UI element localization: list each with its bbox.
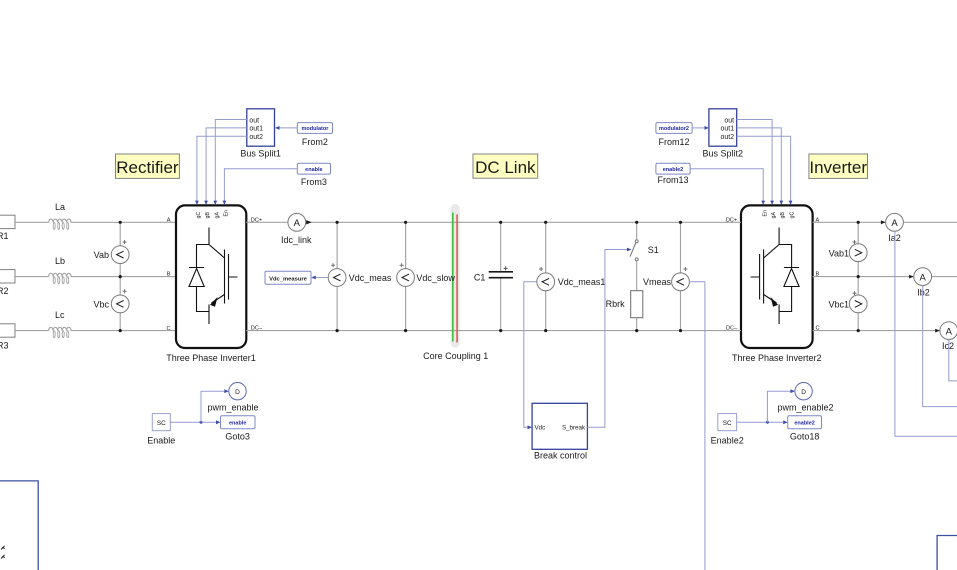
goto-from From2 modulator: [297, 123, 332, 147]
svg-text:enable2: enable2: [663, 167, 683, 173]
node A right: [857, 221, 860, 224]
svg-text:A: A: [891, 218, 898, 229]
capacitor C1 branch: [474, 222, 513, 330]
svg-text:gB: gB: [780, 212, 786, 219]
svg-text:Ib2: Ib2: [917, 287, 930, 297]
wire right measurement branch: [857, 222, 859, 330]
voltage measurement Vbc1: [828, 291, 867, 313]
subsystem block Three Phase Inverter1: [166, 205, 256, 363]
node DC+ x636: [635, 221, 638, 224]
svg-text:Lb: Lb: [55, 256, 65, 266]
svg-text:A: A: [167, 217, 171, 223]
node DC- x337: [336, 329, 339, 332]
voltage source Vbc: [93, 289, 129, 313]
node DC- x680: [679, 329, 682, 332]
svg-text:pwm_enable: pwm_enable: [207, 403, 258, 413]
node DC- x405: [404, 329, 407, 332]
source block Enable2 SC: [711, 414, 744, 446]
wire From3 to pin En: [224, 169, 297, 201]
svg-text:Inverter: Inverter: [809, 158, 867, 177]
svg-text:From13: From13: [657, 175, 688, 185]
wire La to node A: [74, 221, 176, 223]
wire Vmeas output down: [689, 282, 705, 570]
wire Bus Split2 out to pin gA2: [737, 120, 772, 202]
ammeter Ia2: [886, 213, 904, 242]
svg-text:Lc: Lc: [55, 310, 65, 320]
scope box bottom-left: [0, 481, 38, 570]
svg-text:Enable2: Enable2: [711, 436, 744, 446]
svg-text:From12: From12: [658, 137, 689, 147]
wire From13 to pin En2: [690, 169, 763, 201]
svg-text:Three Phase Inverter2: Three Phase Inverter2: [732, 353, 822, 363]
voltage measurement Vdc_meas1: [537, 267, 606, 291]
wire Enable2 to Goto18: [737, 421, 784, 423]
IGBT diode symbol inside block2: [751, 228, 800, 325]
wire Enable to Goto3: [170, 421, 216, 423]
goto-from From12 modulator2: [656, 123, 692, 147]
svg-text:Rectifier: Rectifier: [116, 158, 179, 177]
wire DC- rail: [246, 330, 741, 332]
inductor Lc: [49, 310, 74, 338]
goto Goto18 enable2: [788, 416, 822, 442]
wire Vmeas branch: [680, 222, 682, 330]
goto-from From13 enable2: [656, 163, 690, 185]
svg-text:gA: gA: [214, 212, 220, 219]
svg-text:Vdc: Vdc: [535, 425, 546, 432]
svg-text:DC–: DC–: [726, 326, 738, 332]
svg-text:modulator: modulator: [301, 126, 329, 132]
svg-text:gB: gB: [205, 212, 211, 219]
svg-text:C: C: [166, 326, 170, 332]
wire R1 to La: [15, 221, 49, 223]
goto Goto3 enable: [221, 416, 256, 442]
node DC+ x545: [544, 221, 547, 224]
wire A rail right: [813, 221, 886, 223]
wire From12 to Bus Split2: [692, 127, 704, 129]
svg-text:out1: out1: [249, 126, 263, 133]
IGBT diode symbol inside block1: [189, 228, 238, 325]
core coupling red line: [456, 215, 458, 343]
svg-text:R3: R3: [0, 340, 9, 350]
wire Ic2 output down right: [949, 340, 957, 381]
svg-text:gC: gC: [790, 212, 796, 219]
core coupling highlight halo: [451, 204, 460, 348]
svg-text:Bus Split2: Bus Split2: [703, 148, 744, 158]
area label DC Link: [473, 154, 538, 178]
svg-text:B: B: [167, 272, 171, 278]
svg-text:Vbc: Vbc: [93, 300, 109, 310]
svg-text:S1: S1: [648, 245, 659, 255]
area label Rectifier: [116, 154, 180, 178]
node C right: [857, 329, 860, 332]
voltage measurement Vab1: [829, 240, 867, 262]
svg-text:From3: From3: [301, 177, 327, 187]
wire DC+ rail left: [246, 221, 288, 223]
block Bus Split2: [703, 109, 744, 159]
wire Ia2 output down right: [895, 231, 957, 436]
svg-text:DC Link: DC Link: [475, 158, 536, 177]
goto Vdc_measure: [265, 271, 311, 284]
switch S1: [630, 222, 659, 290]
node A junction: [119, 221, 122, 224]
scope box italic text fragment 2: [1, 555, 5, 559]
svg-text:out2: out2: [720, 134, 734, 141]
node enable2 junction: [766, 421, 769, 424]
goto pwm_enable2 D: [777, 383, 833, 413]
source block Enable SC: [147, 414, 175, 446]
svg-text:SC: SC: [157, 420, 166, 427]
wire Ib2 output down right: [923, 286, 957, 407]
wire From2 to Bus Split1: [280, 127, 298, 129]
svg-text:S_break: S_break: [562, 425, 586, 432]
inductor La: [49, 202, 74, 230]
resistor Rbrk: [606, 291, 643, 331]
node DC- x636: [635, 329, 638, 332]
node DC+ x405: [404, 221, 407, 224]
node C junction: [119, 329, 122, 332]
voltage measurement Vdc_slow: [397, 263, 456, 286]
svg-text:La: La: [55, 202, 65, 212]
svg-text:A: A: [920, 272, 927, 283]
svg-text:Break control: Break control: [534, 451, 587, 461]
resistor R2: [0, 270, 15, 296]
node B junction: [119, 275, 122, 278]
svg-text:Goto3: Goto3: [225, 432, 250, 442]
svg-text:pwm_enable2: pwm_enable2: [777, 403, 833, 413]
svg-text:enable: enable: [229, 421, 246, 427]
svg-text:Idc_link: Idc_link: [281, 235, 312, 245]
subsystem block Three Phase Inverter2: [732, 205, 822, 363]
svg-text:Vdc_slow: Vdc_slow: [416, 273, 455, 283]
resistor R3: [0, 324, 15, 351]
wire Bus Split1 out to pin gA: [215, 120, 247, 202]
arrow into Ic2: [935, 329, 940, 333]
wire Vdc_meas to Vdc_measure: [316, 277, 328, 279]
arrow into Ia2: [881, 220, 886, 224]
goto-from From3 enable: [297, 163, 330, 187]
svg-text:gA: gA: [771, 212, 777, 219]
svg-text:Vdc_measure: Vdc_measure: [269, 276, 307, 282]
svg-text:out: out: [724, 117, 734, 124]
resistor R1: [0, 215, 15, 241]
core coupling green line: [452, 213, 454, 342]
svg-text:gC: gC: [196, 212, 202, 219]
node DC- x500: [499, 329, 502, 332]
svg-text:Goto18: Goto18: [790, 432, 820, 442]
inductor Lb: [49, 256, 74, 284]
node DC+ x500: [499, 221, 502, 224]
svg-text:Vdc_meas1: Vdc_meas1: [558, 277, 606, 287]
node DC- x545: [544, 329, 547, 332]
svg-text:C1: C1: [474, 272, 486, 282]
svg-text:A: A: [946, 326, 953, 337]
node DC+ x337: [336, 221, 339, 224]
svg-text:R1: R1: [0, 231, 9, 241]
wire R3 to Lc: [15, 330, 49, 332]
block Bus Split1: [240, 109, 281, 159]
svg-text:modulator2: modulator2: [659, 126, 689, 132]
node B right: [857, 275, 860, 278]
block Break control: [532, 403, 587, 460]
wire Vdc_slow branch: [405, 222, 407, 330]
svg-text:D: D: [801, 389, 806, 396]
svg-text:Bus Split1: Bus Split1: [240, 148, 281, 158]
arrow into Ib2: [909, 275, 914, 279]
svg-text:Three Phase Inverter1: Three Phase Inverter1: [166, 353, 256, 363]
svg-text:A: A: [294, 218, 301, 229]
svg-text:Vab: Vab: [94, 250, 109, 260]
wire Vdc_meas1 to Break control: [524, 282, 537, 428]
svg-text:out1: out1: [720, 126, 734, 133]
svg-text:Vab1: Vab1: [829, 248, 849, 258]
wire C rail right: [813, 330, 940, 332]
svg-text:Vbc1: Vbc1: [828, 300, 849, 310]
svg-text:Enable: Enable: [147, 436, 175, 446]
wire DC+ rail middle: [306, 221, 741, 223]
voltage measurement Vdc_meas: [328, 263, 392, 286]
area label Inverter: [809, 154, 868, 178]
wire B rail right: [813, 276, 914, 278]
wire Vdc_meas branch: [336, 222, 338, 330]
wire junction to pwm_enable D: [201, 391, 224, 422]
wire Bus Split1 out1 to pin gB: [206, 128, 247, 201]
svg-text:From2: From2: [302, 137, 328, 147]
svg-text:R2: R2: [0, 286, 9, 296]
voltage source Vab: [94, 240, 129, 264]
svg-text:Ic2: Ic2: [942, 341, 954, 351]
wire Break control to switch S1: [587, 250, 627, 428]
scope box italic text fragment 1: [1, 546, 5, 550]
svg-text:enable2: enable2: [794, 421, 814, 427]
svg-text:SC: SC: [723, 420, 732, 427]
wire Bus Split2 out2 to pin gC2: [737, 136, 791, 201]
svg-text:out: out: [249, 117, 259, 124]
wire vertical source branch: [119, 222, 121, 330]
svg-text:Vmeas: Vmeas: [643, 277, 672, 287]
scope box bottom-right: [937, 536, 957, 570]
svg-text:Vdc_meas: Vdc_meas: [349, 273, 392, 283]
wire Vdc_meas1 branch: [545, 222, 547, 330]
wire Bus Split2 out1 to pin gB2: [737, 128, 782, 201]
wire junction to pwm_enable2 D: [767, 391, 790, 422]
svg-text:DC+: DC+: [726, 217, 737, 223]
voltage measurement Vmeas: [643, 267, 689, 291]
svg-text:Rbrk: Rbrk: [606, 299, 626, 309]
ammeter Ic2: [940, 322, 957, 352]
node DC+ x680: [679, 221, 682, 224]
wire Lb to node B: [74, 276, 176, 278]
svg-text:enable: enable: [305, 167, 322, 173]
arrow after Idc_link: [306, 220, 311, 224]
goto pwm_enable D: [207, 383, 258, 413]
node enable junction: [200, 421, 203, 424]
svg-text:out2: out2: [249, 134, 263, 141]
wire R2 to Lb: [15, 276, 49, 278]
svg-text:D: D: [235, 389, 240, 396]
wire Lc to node C: [74, 330, 176, 332]
svg-text:En: En: [762, 210, 768, 217]
wire Bus Split1 out2 to pin gC: [197, 136, 247, 201]
ammeter Ib2: [914, 268, 932, 298]
svg-text:Core Coupling 1: Core Coupling 1: [423, 351, 488, 361]
svg-text:En: En: [223, 210, 229, 217]
ammeter Idc_link: [281, 213, 312, 245]
